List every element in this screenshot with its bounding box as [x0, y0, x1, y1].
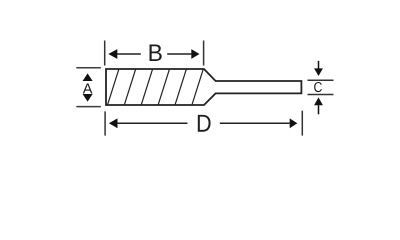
dimension D line right segment — [220, 122, 290, 124]
hatch line 1 — [108, 69, 119, 104]
hatch line 5 — [175, 69, 186, 104]
label C — [314, 82, 322, 92]
dimension C bottom arrowhead — [314, 97, 323, 105]
dimension B line right segment — [167, 53, 191, 55]
dimension B right extension tick — [203, 41, 205, 66]
dimension A up arrowhead — [83, 73, 93, 81]
dimension C extension line bottom — [308, 94, 334, 96]
dimension B left arrowhead — [108, 49, 117, 59]
label D — [198, 115, 211, 132]
dimension D right extension tick — [301, 111, 303, 136]
burr body outline (head + taper + shank) — [106, 69, 301, 105]
dimension C bottom arrow stem — [318, 105, 320, 114]
dimension D left extension tick — [104, 111, 106, 135]
dimension D left arrowhead — [109, 118, 118, 128]
label B — [150, 44, 162, 61]
dimension C top arrow stem — [318, 61, 320, 69]
label A — [83, 83, 93, 93]
dimension D line left segment — [117, 122, 187, 124]
dimension A extension line bottom — [76, 106, 101, 108]
dimension B right arrowhead — [191, 49, 199, 59]
dimension D right arrowhead — [290, 118, 298, 128]
hatch line 6 — [192, 69, 203, 104]
dimension B left extension tick — [104, 41, 106, 66]
dimension A extension line top — [76, 67, 101, 69]
dimension C top arrowhead — [314, 68, 323, 76]
dimension B line left segment — [117, 53, 141, 55]
dimension A down arrowhead — [83, 94, 93, 102]
dimension C extension line top — [308, 79, 334, 81]
hatch line 2 — [124, 69, 135, 104]
hatch line 4 — [158, 69, 169, 104]
hatch line 3 — [141, 69, 152, 104]
